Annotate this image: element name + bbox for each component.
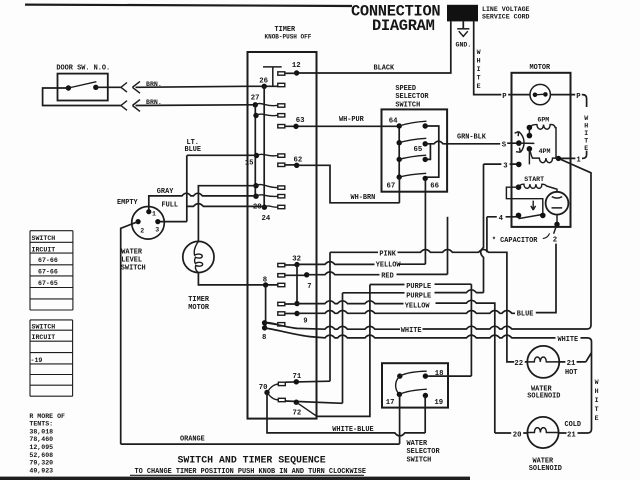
wire PURPLE2: 72 riser to motor 3 riser <box>343 290 484 293</box>
wire 62 to WH-BRN to 67 riser <box>297 165 400 203</box>
connector arrow lower <box>132 100 140 112</box>
node 26 <box>262 84 267 89</box>
node 24 <box>262 205 267 210</box>
riser 19 to WHITE-BLUE <box>424 396 426 433</box>
motor node 1 <box>556 156 561 161</box>
water level switch circle <box>132 207 165 240</box>
selector contact UL <box>397 373 402 378</box>
svg-text:-19: -19 <box>31 357 43 364</box>
service cord plug <box>447 5 478 22</box>
svg-text:GRAY: GRAY <box>157 188 174 196</box>
svg-text:8: 8 <box>262 334 266 342</box>
svg-text:PURPLE: PURPLE <box>406 283 431 291</box>
link node 8 to lower node 8 <box>265 285 267 328</box>
svg-text:W: W <box>477 49 481 56</box>
svg-text:MOTOR: MOTOR <box>188 304 210 312</box>
svg-text:DIAGRAM: DIAGRAM <box>372 17 435 35</box>
water level pins <box>136 209 161 224</box>
capacitor lead diagonal <box>554 224 557 234</box>
svg-text:TENTS:: TENTS: <box>29 421 53 428</box>
svg-text:67-65: 67-65 <box>38 280 58 287</box>
wire RED: 7 to motor 4 riser <box>307 272 448 275</box>
node 8 upper <box>263 282 268 287</box>
terminal 7 <box>285 274 307 276</box>
blade 67 <box>399 173 426 177</box>
svg-text:KNOB-PUSH OFF: KNOB-PUSH OFF <box>265 33 312 40</box>
svg-text:21: 21 <box>567 432 576 440</box>
svg-text:S: S <box>502 141 507 149</box>
start blade contact <box>540 213 546 219</box>
connector arrow upper <box>132 81 140 93</box>
cold solenoid coil <box>527 428 559 433</box>
svg-text:24: 24 <box>262 215 271 223</box>
svg-text:6PM: 6PM <box>537 117 549 124</box>
protector contacts <box>533 92 548 97</box>
terminal 32 <box>285 264 297 266</box>
svg-text:E: E <box>595 415 599 422</box>
capacitor leader tick <box>543 233 550 238</box>
riser 71 to PINK <box>329 252 331 381</box>
svg-text:78,460: 78,460 <box>29 436 53 443</box>
svg-text:MOTOR: MOTOR <box>530 64 552 72</box>
svg-text:26: 26 <box>259 77 268 85</box>
contact 64 <box>397 123 402 128</box>
svg-text:PINK: PINK <box>379 251 396 259</box>
svg-text:SOLENOID: SOLENOID <box>529 465 562 473</box>
motor 4 terminal <box>516 213 522 219</box>
svg-text:18: 18 <box>435 370 444 378</box>
selector contact 18 <box>423 373 428 378</box>
capacitor plates <box>552 197 563 208</box>
riser 17 to ORANGE <box>399 394 401 444</box>
wire P right to 1 jumper <box>550 95 586 159</box>
terminal 9 <box>285 313 297 315</box>
terminal 62 <box>285 164 297 166</box>
contact squiggle 27 <box>255 103 277 105</box>
door switch box <box>58 74 108 101</box>
svg-text:IRCUIT: IRCUIT <box>32 246 56 253</box>
svg-text:49,923: 49,923 <box>29 467 53 474</box>
node below 27 <box>253 113 258 118</box>
svg-text:WATER: WATER <box>121 248 143 256</box>
contact A2 <box>397 140 402 145</box>
svg-text:64: 64 <box>389 118 398 126</box>
svg-text:WHITE-BLUE: WHITE-BLUE <box>332 426 373 434</box>
svg-text:SWITCH: SWITCH <box>32 235 56 242</box>
contact 66 <box>423 176 428 181</box>
wire BLUE: 9 to capacitor 2 <box>297 244 556 314</box>
contact B3 <box>423 157 428 162</box>
connector fork upper <box>121 83 127 93</box>
svg-text:19: 19 <box>434 399 443 407</box>
svg-text:GND.: GND. <box>456 41 472 48</box>
svg-text:27: 27 <box>251 94 260 102</box>
wire BRN lower: connector to timer 27 <box>136 104 256 107</box>
svg-text:RED: RED <box>381 272 393 280</box>
start blade <box>519 214 543 218</box>
svg-text:I: I <box>477 66 481 73</box>
label TIMER MOTOR <box>188 296 210 312</box>
svg-text:SWITCH AND TIMER SEQUENCE: SWITCH AND TIMER SEQUENCE <box>178 455 326 466</box>
svg-text:70: 70 <box>259 384 268 392</box>
centrifugal switch blade and arc <box>515 132 535 153</box>
contact squiggle 15 <box>257 154 278 156</box>
centrifugal contact 4PM <box>527 146 533 152</box>
svg-text:T: T <box>477 75 481 82</box>
svg-text:I: I <box>595 397 599 404</box>
node 27 <box>253 102 258 107</box>
wire YELLOW2: node to 20 riser <box>285 300 495 433</box>
switch circuit table 2 <box>30 320 73 396</box>
wire WHITE bundle: node 8 to motor 1 <box>265 158 591 329</box>
riser 72 to PURPLE2 <box>342 293 344 404</box>
switch circuit table 1 <box>30 231 73 310</box>
svg-text:ORANGE: ORANGE <box>180 435 205 443</box>
yellow2 node <box>294 301 299 306</box>
svg-text:FULL: FULL <box>162 202 179 210</box>
hot solenoid circle <box>527 346 559 378</box>
wire 4 dogleg to PINK <box>486 217 488 253</box>
wire WHITE-BLUE: 70 to 19 <box>267 393 425 436</box>
riser 18 <box>470 284 472 376</box>
connector fork lower <box>121 101 127 111</box>
svg-text:BLUE: BLUE <box>517 311 534 319</box>
svg-text:W: W <box>595 379 599 386</box>
svg-text:9: 9 <box>303 317 307 325</box>
svg-text:GRN-BLK: GRN-BLK <box>457 134 487 142</box>
selector contact 17 <box>397 392 402 397</box>
svg-text:H: H <box>584 123 588 130</box>
wire door switch upper to connector <box>96 86 121 88</box>
svg-text:67: 67 <box>387 182 396 190</box>
svg-text:BLACK: BLACK <box>374 65 396 73</box>
svg-text:71: 71 <box>293 373 302 381</box>
border frame top line <box>25 5 352 6</box>
wire timer motor bottom to terminal 8 <box>198 273 277 285</box>
blade A3 <box>399 155 426 159</box>
svg-text:TIMER: TIMER <box>188 296 210 304</box>
svg-text:SOLENOID: SOLENOID <box>527 393 560 401</box>
contact squiggle node 115 <box>256 114 278 116</box>
svg-text:WHITE: WHITE <box>558 336 579 344</box>
contact squiggle lower 8 <box>265 322 278 324</box>
svg-text:P: P <box>576 93 581 101</box>
speed selector left bus <box>398 126 400 177</box>
svg-text:1: 1 <box>152 210 156 217</box>
svg-text:79,320: 79,320 <box>29 460 53 467</box>
contact squiggles 70 <box>267 384 278 400</box>
water selector box <box>382 363 448 407</box>
svg-text:65: 65 <box>414 146 423 154</box>
subtitle underline <box>130 474 364 476</box>
start winding bracket to blade contact <box>506 187 542 213</box>
blade 72 to box corner <box>296 402 317 416</box>
selector blade lower <box>399 389 426 394</box>
wire PURPLE1: riser to 18 riser <box>370 283 472 285</box>
blade 64 <box>399 121 426 126</box>
svg-text:32: 32 <box>292 255 301 263</box>
pin number labels 1 2 3 <box>140 210 159 234</box>
svg-text:21: 21 <box>567 360 576 368</box>
svg-text:YELLOW: YELLOW <box>376 261 402 269</box>
start winding <box>519 184 558 192</box>
svg-text:P: P <box>502 93 507 101</box>
blade A2 <box>399 138 426 142</box>
selector 18 wire <box>428 375 471 377</box>
svg-text:H: H <box>595 388 599 395</box>
svg-text:12: 12 <box>292 62 301 70</box>
cold solenoid left wire <box>495 432 528 434</box>
parts text block <box>29 413 65 475</box>
svg-text:3: 3 <box>503 162 508 170</box>
motor 6PM winding <box>529 125 556 159</box>
svg-text:DOOR SW. N.O.: DOOR SW. N.O. <box>56 65 110 73</box>
svg-text:WATER: WATER <box>407 440 429 448</box>
timer motor coil <box>194 241 202 272</box>
wire timer motor top to node 185 <box>198 186 256 242</box>
contact B1 <box>423 123 428 128</box>
timer bus B (26 to 24) <box>263 86 265 207</box>
svg-text:PURPLE: PURPLE <box>406 293 431 301</box>
svg-text:15: 15 <box>245 159 254 167</box>
centrifugal contacts 6PM <box>527 125 533 131</box>
svg-text:66: 66 <box>430 182 439 190</box>
selector contact 19 <box>423 393 428 398</box>
svg-text:R MORE OF: R MORE OF <box>29 413 65 420</box>
terminal 71 <box>285 381 330 382</box>
svg-text:E: E <box>477 83 481 90</box>
svg-text:SELECTOR: SELECTOR <box>395 93 429 101</box>
wire pin2 to orange riser <box>121 222 138 445</box>
table 2 text <box>31 324 56 364</box>
svg-text:SELECTOR: SELECTOR <box>407 448 441 456</box>
motor 3 terminal <box>516 162 522 168</box>
wire YELLOW1: 32 to 66 riser <box>297 262 425 265</box>
svg-text:63: 63 <box>296 117 305 125</box>
svg-text:7: 7 <box>307 283 311 291</box>
wire GRAY pin1 to node 196 <box>149 193 256 212</box>
svg-text:BRN.: BRN. <box>146 99 162 106</box>
svg-text:COLD: COLD <box>565 421 582 429</box>
node 8 lower pair <box>262 320 267 325</box>
node 185 timer motor top <box>253 183 258 188</box>
label WATER SOLENOID cold <box>529 458 562 473</box>
speed selector box <box>382 109 448 191</box>
label SPEED SELECTOR SWITCH <box>395 85 429 109</box>
timer motor circle <box>183 241 214 272</box>
terminal 72 <box>285 401 342 403</box>
label WHITE vertical <box>477 49 481 90</box>
svg-text:WH-PUR: WH-PUR <box>339 116 365 124</box>
door switch blade <box>68 82 96 88</box>
svg-text:67-66: 67-66 <box>38 269 58 276</box>
svg-text:3: 3 <box>155 227 159 234</box>
svg-text:W: W <box>584 115 588 122</box>
svg-text:4: 4 <box>499 215 504 223</box>
svg-text:E: E <box>584 145 588 152</box>
wire LT BLUE to node 15 <box>187 154 257 156</box>
svg-text:SWITCH: SWITCH <box>32 324 56 331</box>
selector bow link <box>396 376 400 394</box>
svg-text:1: 1 <box>576 157 581 165</box>
svg-text:38,018: 38,018 <box>29 428 53 435</box>
hot solenoid right wire <box>559 361 586 363</box>
table 1 text <box>32 235 58 287</box>
riser RED to motor 4 <box>447 217 449 275</box>
motor 4PM winding <box>529 149 558 163</box>
svg-text:2: 2 <box>140 227 144 234</box>
svg-text:22: 22 <box>514 360 523 368</box>
svg-text:12,095: 12,095 <box>29 444 53 451</box>
bottom bar <box>0 477 470 480</box>
svg-text:4PM: 4PM <box>539 148 551 155</box>
svg-text:72: 72 <box>293 409 302 417</box>
ground wire <box>462 21 464 29</box>
wire ORANGE: water level 2 to 17 <box>121 443 400 445</box>
wire 3 <box>484 163 519 165</box>
ground symbol <box>457 29 469 37</box>
svg-text:YELLOW: YELLOW <box>405 302 431 310</box>
wire P left <box>512 94 531 96</box>
wire 4 <box>487 216 519 218</box>
wire LT BLUE riser down to pin 3 <box>158 155 187 221</box>
svg-text:WHITE: WHITE <box>401 327 422 335</box>
terminal 70 <box>264 390 269 395</box>
motor protector circle <box>530 84 550 104</box>
link 32 down to yellow node <box>296 265 298 304</box>
wire B1 to 66 <box>425 126 439 177</box>
capacitor lead contact <box>554 222 559 227</box>
svg-text:T: T <box>584 138 588 145</box>
start capacitor circle <box>546 192 569 215</box>
timer bus A (27 down) <box>254 105 256 196</box>
svg-text:BRN.: BRN. <box>146 81 162 88</box>
timer box <box>248 52 317 419</box>
contact B2 <box>423 141 428 146</box>
wire FULL tee to node 24 <box>187 204 265 207</box>
label WHITE vertical right <box>595 379 599 422</box>
svg-text:WH-BRN: WH-BRN <box>351 194 376 202</box>
terminal 63 and wire WH-PUR to 64 <box>285 125 399 127</box>
link 4PM contact to 3 wire <box>528 149 530 165</box>
svg-text:SWITCH: SWITCH <box>407 456 432 464</box>
svg-text:START: START <box>524 176 544 183</box>
start winding contact <box>516 184 522 190</box>
svg-text:SERVICE CORD: SERVICE CORD <box>482 13 530 20</box>
svg-text:IRCUIT: IRCUIT <box>32 334 56 341</box>
riser motor 3 <box>481 164 484 293</box>
svg-text:BLUE: BLUE <box>185 146 202 154</box>
node 15 with LT BLUE entry <box>254 153 259 158</box>
label WHITE vertical right of motor <box>584 115 588 152</box>
svg-text:EMPTY: EMPTY <box>117 199 139 207</box>
motor box <box>512 73 571 227</box>
svg-text:28: 28 <box>253 203 262 211</box>
wire WHITE solenoid feed: node 8 to solenoids <box>265 328 592 433</box>
svg-text:8: 8 <box>263 277 267 285</box>
riser PURPLE1 to timer corner <box>317 285 370 417</box>
label TIMER KNOB-PUSH OFF <box>265 26 312 40</box>
wire PINK: riser to hot solenoid 22 <box>330 250 527 362</box>
door switch contacts <box>66 85 71 90</box>
svg-text:52,608: 52,608 <box>29 452 53 459</box>
cold solenoid circle <box>527 417 558 448</box>
svg-text:H: H <box>477 58 481 65</box>
riser 67 to WH-BRN <box>398 177 400 203</box>
svg-text:SWITCH: SWITCH <box>395 101 420 109</box>
wire GRN-BLK: B2 to motor S <box>425 141 517 144</box>
svg-text:17: 17 <box>386 399 395 407</box>
label LT. BLUE <box>185 139 202 154</box>
svg-text:20: 20 <box>513 431 522 439</box>
capacitor lead to 2 <box>556 215 558 225</box>
svg-text:SWITCH: SWITCH <box>121 264 146 272</box>
wire door switch loop to lower connector <box>43 88 121 106</box>
timer contact rects column <box>278 72 286 402</box>
label LINE VOLTAGE SERVICE CORD <box>482 6 530 20</box>
contact 67 <box>397 174 402 179</box>
riser 66 to YELLOW1 <box>424 178 426 264</box>
terminal 12 <box>294 70 299 75</box>
hot solenoid coil <box>527 357 559 362</box>
svg-text:62: 62 <box>294 156 303 164</box>
svg-text:SPEED: SPEED <box>395 85 416 93</box>
wire WHITE: plug to motor P <box>474 21 512 94</box>
wire BRN upper: connector to timer 26 <box>136 86 278 87</box>
svg-text:LEVEL: LEVEL <box>121 256 142 264</box>
svg-text:T: T <box>595 406 599 413</box>
label WATER LEVEL SWITCH <box>121 248 146 272</box>
title CONNECTION DIAGRAM <box>351 3 440 35</box>
svg-text:LINE VOLTAGE: LINE VOLTAGE <box>482 6 530 13</box>
svg-text:* CAPACITOR: * CAPACITOR <box>492 237 538 245</box>
motor S terminal <box>516 140 522 146</box>
link B2 to B3 <box>425 144 430 160</box>
selector blade upper <box>400 371 427 376</box>
svg-text:HOT: HOT <box>565 369 577 377</box>
svg-text:67-66: 67-66 <box>38 257 58 264</box>
svg-text:2: 2 <box>553 236 557 244</box>
wire BLACK: plug to timer terminal 12 <box>297 21 451 73</box>
label WATER SELECTOR SWITCH <box>407 440 441 464</box>
svg-text:I: I <box>584 130 588 137</box>
label WATER SOLENOID hot <box>527 385 560 400</box>
contact A3 <box>397 157 402 162</box>
blade arrow <box>531 201 536 210</box>
timer cam T-bar <box>263 67 282 86</box>
node 196 gray entry <box>253 194 258 199</box>
